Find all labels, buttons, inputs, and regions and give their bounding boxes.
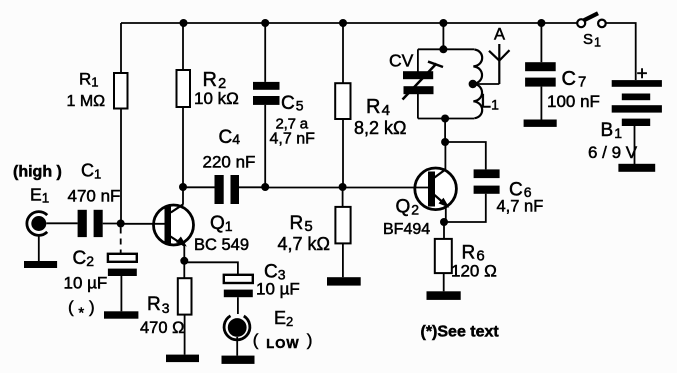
svg-text:4,7 nF: 4,7 nF [270,131,316,148]
node rail junction C5 [261,19,269,27]
capacitor C1 [78,210,103,237]
wire base Q1 [121,223,165,225]
capacitor C4 [215,175,240,204]
ground R3 [166,355,199,363]
wire E2 to ground [236,337,238,356]
wire R4 bottom [342,119,344,187]
svg-text:8,2 kΩ: 8,2 kΩ [354,118,406,138]
wire R4 branch [342,23,344,83]
capacitor C2 [108,254,137,276]
svg-text:4,7 kΩ: 4,7 kΩ [278,234,330,254]
svg-text:6 / 9 V: 6 / 9 V [588,143,638,162]
svg-text:100 nF: 100 nF [547,92,600,111]
node rail junction R2 [180,19,188,27]
resistor R3 [178,278,192,314]
ground R6 [427,291,461,300]
svg-text:C1: C1 [81,161,101,182]
svg-text:(*)See text: (*)See text [421,324,500,341]
wire collector Q1 [182,187,184,205]
wire R6 to ground [443,273,445,291]
svg-text:C4: C4 [219,127,241,148]
wire emitter to R6 [443,222,445,239]
wire R1 branch [120,23,122,73]
ground R5 [327,277,361,285]
svg-text:R5: R5 [290,213,313,235]
wire C6 to emitter node [444,194,485,222]
ground C7 [524,120,557,127]
wire C4 to C5 node [239,186,265,188]
wire R3 to ground [184,315,186,355]
svg-text:E1: E1 [30,184,49,205]
wire C7 to ground [540,87,542,120]
node Q2 emitter junction [440,218,448,226]
svg-text:470 nF: 470 nF [68,186,121,205]
ground C2 [104,311,138,318]
svg-text:10 µF: 10 µF [256,280,300,299]
capacitor C7 [525,62,556,86]
wire emitter to R3 [183,261,185,278]
svg-text:( * ): ( * ) [68,298,95,322]
svg-text:Q1: Q1 [210,213,233,234]
capacitor C6 [474,169,500,193]
svg-text:120 Ω: 120 Ω [451,262,497,281]
svg-text:Q2: Q2 [396,197,420,218]
ground E1 [24,261,57,268]
resistor R6 [435,239,452,273]
wire junction to C6 [445,142,486,169]
node tank bottom junction [441,115,449,123]
wire tank branch from rail [442,23,444,49]
svg-text:4,7 nF: 4,7 nF [497,198,544,216]
wire R1 bottom [120,109,122,224]
antenna A [489,50,510,60]
capacitor C5 [253,82,280,105]
resistor R5 [335,207,350,244]
node Q1 base junction [117,220,125,228]
svg-text:): ) [307,330,313,349]
svg-text:1 MΩ: 1 MΩ [67,93,106,110]
node rail junction R4 [339,19,347,27]
wire top supply rail [121,22,577,24]
wire collector Q2 [444,142,446,170]
transistor Q2 [415,168,457,220]
node R4 R5 junction [339,183,347,191]
svg-text:LOW: LOW [266,336,299,351]
resistor R4 [335,83,350,119]
node rail junction tank [439,19,447,27]
svg-text:470 Ω: 470 Ω [140,319,184,337]
wire tank bottom to collector node [444,119,446,143]
wire C5 bottom [264,105,266,187]
wire base line Q2 [265,187,428,189]
battery B1 [612,80,662,126]
svg-text:BC 549: BC 549 [194,236,249,254]
wire C1 to base node [103,223,121,225]
wire emitter to C3 [184,262,238,275]
ground B1 [618,164,655,172]
wire E1 to ground [38,234,40,261]
wire E1 to C1 [46,222,77,224]
svg-text:220 nF: 220 nF [203,153,256,172]
resistor R1 [114,73,128,109]
ground E2 [222,356,255,364]
wire R2 bottom [182,107,184,187]
node collector C6 junction [441,138,449,146]
svg-text:10 µF: 10 µF [64,274,108,293]
node tank top junction [439,45,447,53]
svg-text:B1: B1 [601,120,623,141]
node rail junction C7 [537,19,545,27]
svg-text:+: + [637,64,648,85]
wire C2 to ground [120,276,122,311]
transistor Q1 [154,204,194,259]
svg-text:CV: CV [389,51,414,71]
svg-text:BF494: BF494 [383,221,430,238]
wire R5 top [342,187,344,207]
capacitor C3 [224,275,253,297]
wire tank loop left upper [417,49,419,72]
jack E2 [224,316,250,340]
node Q1 emitter junction [180,257,188,265]
wire rail right segment to battery [606,23,636,80]
resistor R2 [177,70,191,107]
switch S1 [577,13,606,27]
svg-text:E2: E2 [274,308,293,329]
wire tap to antenna [473,83,500,85]
svg-text:10 kΩ: 10 kΩ [194,89,239,108]
svg-text:(: ( [253,330,259,349]
svg-text:R1: R1 [79,70,99,90]
svg-text:C2: C2 [73,248,95,269]
wire C7 branch [540,23,542,62]
wire R5 to ground [342,243,344,277]
wire R2 branch [182,23,184,70]
wire junction to C4 [183,186,215,188]
wire battery to ground [634,126,636,164]
svg-text:L1: L1 [481,92,500,113]
wire tank loop left lower [417,94,419,119]
svg-text:S1: S1 [583,31,601,50]
wire tank loop top [418,48,474,50]
jack E1 [27,212,47,236]
node C5 base junction [261,183,269,191]
node R2 C4 junction [179,183,187,191]
capacitor CV [403,62,444,100]
svg-text:A: A [494,26,505,44]
wire C5 branch [264,23,266,82]
svg-text:R3: R3 [147,294,170,316]
svg-text:(high ): (high ) [13,164,62,181]
inductor L1 [473,50,482,119]
svg-text:C5: C5 [281,93,304,114]
node L1 tap [469,80,477,88]
wire tank loop bottom [418,118,474,120]
svg-text:C7: C7 [562,68,587,91]
svg-text:R4: R4 [366,96,390,119]
wire C3 to E2 [237,297,239,314]
wire dashed to C2 [120,228,122,254]
